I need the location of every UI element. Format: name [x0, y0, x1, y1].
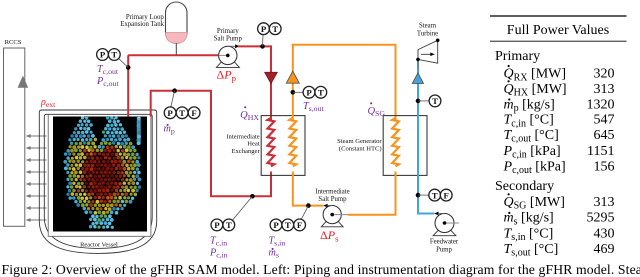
label P_c,in: [209, 248, 228, 260]
node T_s,in tap: [301, 203, 311, 221]
svg-text:Ts,in [°C]: Ts,in [°C]: [504, 226, 554, 243]
label Q_HX: [240, 106, 259, 122]
table mid rule: [490, 40, 627, 42]
svg-text:F: F: [444, 190, 449, 200]
label intermediate salt pump: [315, 188, 349, 203]
svg-text:(Constant HTC): (Constant HTC): [339, 146, 382, 153]
label T_c,out: [97, 64, 119, 76]
svg-text:RCCS: RCCS: [5, 39, 22, 46]
table row P_c,in: [503, 144, 615, 161]
svg-text:QHX: QHX: [240, 110, 259, 122]
turbine: [416, 39, 439, 64]
svg-text:Steam Generator: Steam Generator: [337, 138, 382, 145]
reactor vessel label: [80, 241, 118, 248]
label expansion tank: [120, 14, 164, 28]
svg-text:F: F: [297, 220, 302, 230]
svg-text:547: 547: [594, 113, 615, 128]
label dP_s: [320, 228, 339, 244]
flow arrow primary down: [265, 72, 278, 84]
RCCS riser up arrow: [18, 76, 29, 88]
node cold leg PT tap: [232, 194, 255, 221]
label steam generator: [337, 138, 382, 152]
svg-text:313: 313: [594, 82, 615, 97]
instrument F (IHX secondary in): [294, 219, 306, 231]
svg-text:Exchanger: Exchanger: [231, 148, 260, 155]
wire primary hot leg riser: [127, 55, 129, 116]
svg-text:Ts,in: Ts,in: [269, 236, 286, 248]
instrument T (IHX secondary in): [282, 219, 294, 231]
instrument P (IHX secondary out): [303, 86, 315, 98]
svg-text:Tc,out: Tc,out: [97, 64, 119, 76]
svg-text:Pc,in [kPa]: Pc,in [kPa]: [503, 144, 561, 161]
svg-text:Heat: Heat: [247, 141, 260, 148]
svg-text:QRX [MW]: QRX [MW]: [504, 67, 567, 84]
svg-text:156: 156: [594, 159, 615, 174]
instrument P (hot leg): [97, 49, 109, 61]
svg-text:P: P: [306, 88, 312, 98]
svg-text:Salt Pump: Salt Pump: [318, 196, 347, 203]
svg-text:320: 320: [594, 67, 615, 82]
instrument P (pump discharge): [258, 23, 270, 35]
instrument T (hot leg): [108, 49, 120, 61]
pump P3 feedwater pump: [433, 212, 459, 236]
label Q_SG: [367, 102, 385, 118]
wire pump discharge to IHX: [238, 46, 271, 120]
svg-text:P: P: [100, 50, 106, 60]
rho_ext label: [40, 97, 56, 109]
reactor vessel outer wall: [39, 110, 156, 253]
pebble bed: [63, 116, 141, 229]
table row m_p: [504, 97, 615, 114]
svg-text:Expansion Tank: Expansion Tank: [120, 21, 164, 28]
IHX orange coil: [289, 118, 296, 166]
svg-text:645: 645: [594, 128, 615, 143]
svg-text:ΔPs: ΔPs: [320, 228, 339, 244]
instrument T (IHX secondary out): [315, 86, 327, 98]
table row P_c,out: [503, 159, 615, 176]
svg-text:Secondary: Secondary: [495, 179, 554, 194]
svg-text:Feedwater: Feedwater: [430, 239, 459, 246]
svg-text:F: F: [191, 108, 196, 118]
svg-text:T: T: [272, 24, 278, 34]
label mdot_s: [269, 248, 279, 260]
svg-text:mp: mp: [164, 124, 175, 136]
label steam turbine: [417, 23, 438, 38]
svg-text:P: P: [214, 220, 220, 230]
svg-text:430: 430: [594, 226, 615, 241]
svg-text:P: P: [261, 24, 267, 34]
svg-text:QSG [MW]: QSG [MW]: [504, 195, 565, 212]
node hot leg PT tap: [118, 58, 130, 70]
svg-text:QHX [MW]: QHX [MW]: [504, 82, 567, 99]
svg-text:Salt Pump: Salt Pump: [214, 36, 243, 43]
svg-text:T: T: [432, 96, 438, 106]
svg-text:P: P: [273, 220, 279, 230]
svg-text:1320: 1320: [587, 97, 615, 112]
instrument P (IHX secondary in): [270, 219, 282, 231]
svg-text:ms: ms: [269, 248, 279, 260]
expansion tank stem: [175, 43, 177, 55]
svg-text:T: T: [179, 108, 185, 118]
instrument F (feedwater): [440, 189, 452, 201]
wire primary hot leg horizontal to pump: [128, 54, 218, 56]
svg-text:Tc,out [°C]: Tc,out [°C]: [504, 128, 559, 145]
svg-text:Intermediate: Intermediate: [315, 188, 349, 195]
flow arrow secondary up: [286, 71, 299, 83]
svg-text:Pump: Pump: [436, 247, 452, 254]
RCCS box: [4, 48, 25, 226]
instrument T (steam): [429, 95, 441, 107]
IHX box: [261, 116, 305, 176]
label primary salt pump: [214, 28, 243, 43]
pump P2 intermediate salt pump: [321, 204, 348, 227]
svg-text:T: T: [318, 88, 324, 98]
instrument P (core flow): [164, 107, 176, 119]
table row Q_HX: [504, 80, 615, 99]
wire SG orange outlet to pump suction: [348, 172, 396, 215]
svg-text:313: 313: [594, 195, 615, 210]
pump P1 primary salt pump: [216, 44, 239, 67]
label dP_p: [217, 68, 237, 84]
svg-text:Tc,in: Tc,in: [210, 236, 227, 248]
table top rule: [490, 15, 627, 17]
wire intermediate pump discharge to IHX: [293, 172, 324, 206]
instrument T (cold leg): [223, 219, 235, 231]
reactor vessel inner wall: [44, 114, 152, 248]
core image black background: [53, 117, 147, 232]
svg-text:ρext: ρext: [40, 97, 56, 109]
node T_s,out tap: [291, 90, 304, 95]
table row Q_RX: [504, 65, 615, 84]
svg-text:Primary: Primary: [217, 28, 239, 35]
node mdot_p tap: [171, 88, 177, 107]
wire turbine stub: [417, 59, 419, 68]
svg-text:ΔPp: ΔPp: [217, 68, 237, 84]
flow arrow steam up: [412, 73, 423, 84]
svg-text:Turbine: Turbine: [417, 31, 438, 38]
svg-text:P: P: [167, 108, 173, 118]
svg-text:Reactor Vessel: Reactor Vessel: [80, 241, 118, 248]
svg-text:T: T: [226, 220, 232, 230]
table section secondary: [495, 179, 554, 194]
label mdot_p: [164, 124, 175, 136]
svg-text:Primary: Primary: [495, 49, 540, 64]
svg-text:ms [kg/s]: ms [kg/s]: [504, 211, 554, 228]
table row T_c,in: [504, 113, 615, 130]
table row Q_SG: [504, 193, 615, 212]
svg-text:Tc,in [°C]: Tc,in [°C]: [504, 113, 554, 130]
svg-text:Pc,out [kPa]: Pc,out [kPa]: [503, 159, 566, 176]
svg-text:T: T: [432, 190, 438, 200]
wire steam line: [418, 59, 434, 213]
IHX red coil: [268, 118, 275, 166]
core image frame: [48, 115, 151, 237]
wire IHX red outlet: [151, 91, 271, 197]
table row T_s,in: [504, 226, 615, 243]
svg-text:Intermediate: Intermediate: [226, 133, 259, 140]
instrument P (cold leg): [211, 219, 223, 231]
caption: [2, 262, 640, 277]
table row T_s,out: [504, 242, 615, 259]
svg-text:QSG: QSG: [367, 106, 385, 118]
RCCS label: [5, 39, 22, 46]
svg-text:5295: 5295: [587, 211, 615, 226]
SG orange coil: [392, 118, 399, 166]
node steam T tap: [416, 99, 429, 104]
label T_s,out: [303, 101, 324, 113]
label T_c,in: [210, 236, 227, 248]
SG box: [383, 116, 427, 176]
instrument F (core flow): [188, 107, 200, 119]
RCCS cooling arrows from vessel: [26, 134, 47, 222]
svg-text:1151: 1151: [587, 144, 614, 159]
label T_s,in: [269, 236, 286, 248]
expansion tank: [166, 2, 188, 43]
svg-text:Ts,out: Ts,out: [303, 101, 324, 113]
svg-text:T: T: [285, 220, 291, 230]
instrument T (feedwater): [429, 189, 441, 201]
svg-text:mp [kg/s]: mp [kg/s]: [504, 97, 555, 114]
svg-text:Pc,in: Pc,in: [209, 248, 228, 260]
instrument T (pump discharge): [269, 23, 281, 35]
wire secondary hot riser: [293, 45, 396, 120]
svg-text:Pc,out: Pc,out: [96, 76, 119, 88]
table header: [507, 23, 609, 38]
node feedwater TF tap: [416, 193, 429, 198]
svg-text:469: 469: [594, 242, 615, 257]
label P_c,out: [96, 76, 119, 88]
instrument T (core flow): [176, 107, 188, 119]
label feedwater pump: [430, 239, 459, 254]
table row T_c,out: [504, 128, 615, 145]
table row m_s: [504, 211, 615, 228]
svg-text:Full Power Values: Full Power Values: [507, 23, 609, 38]
label intermediate heat exchanger: [226, 133, 260, 155]
node discharge PT tap: [260, 35, 265, 49]
table section primary: [495, 49, 540, 64]
svg-text:Steam: Steam: [419, 23, 437, 30]
svg-text:Ts,out [°C]: Ts,out [°C]: [504, 242, 559, 259]
svg-text:Primary Loop: Primary Loop: [126, 14, 165, 21]
svg-text:T: T: [111, 50, 117, 60]
svg-text:Figure 2: Overview of the gFHR: Figure 2: Overview of the gFHR SAM model…: [2, 262, 640, 277]
